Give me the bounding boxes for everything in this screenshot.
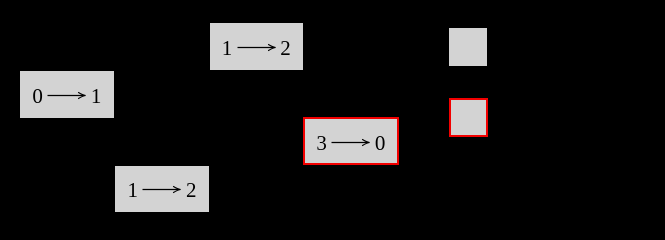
wire arrow in bottom box [142, 184, 181, 195]
wire arrow in left box [47, 90, 86, 101]
node box "1 -> 2" (bottom) [115, 166, 209, 212]
wire arrow in red box [331, 137, 370, 148]
node box "3 -> 0" (red highlighted) [303, 117, 399, 165]
small square node (plain) [449, 28, 487, 66]
node box "0 -> 1" (left) [20, 71, 114, 118]
node box "1 -> 2" (top) [210, 23, 304, 69]
small square node (red highlighted) [449, 98, 488, 138]
wire arrow in top box [237, 42, 276, 53]
